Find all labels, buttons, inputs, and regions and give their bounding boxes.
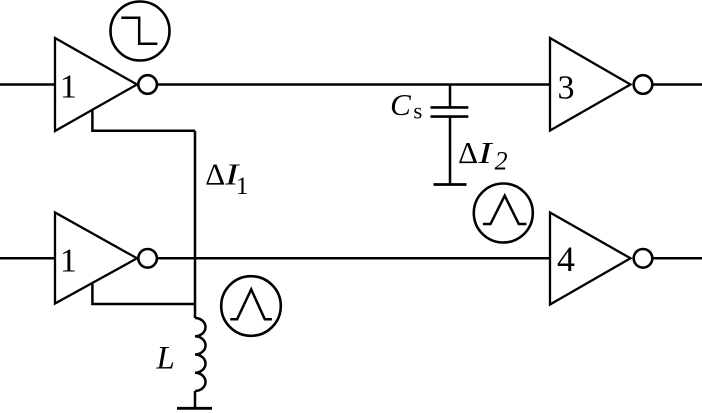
svg-text:2: 2 — [495, 147, 508, 176]
svg-text:1: 1 — [60, 243, 77, 280]
svg-text:3: 3 — [558, 70, 575, 107]
svg-text:s: s — [413, 99, 422, 124]
svg-text:I: I — [477, 136, 494, 170]
svg-text:1: 1 — [236, 173, 249, 200]
svg-text:4: 4 — [557, 239, 575, 279]
svg-text:Δ: Δ — [458, 135, 478, 170]
svg-text:C: C — [390, 87, 411, 122]
svg-text:Δ: Δ — [205, 157, 225, 192]
svg-text:1: 1 — [60, 69, 77, 106]
svg-text:L: L — [156, 341, 175, 377]
